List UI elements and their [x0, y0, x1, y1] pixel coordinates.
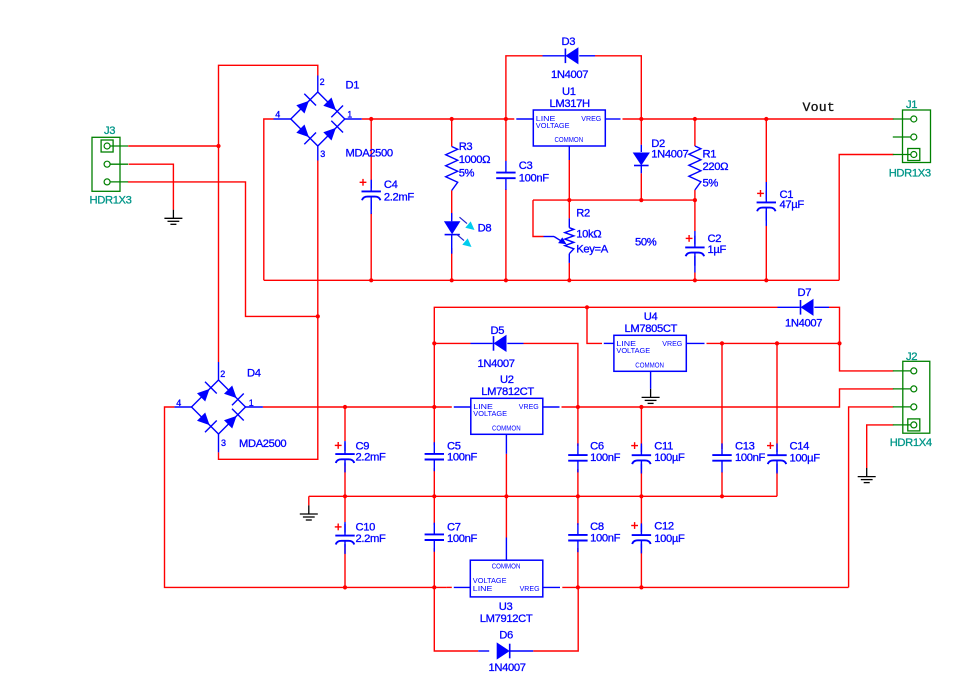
wire [505, 189, 507, 280]
voltage regulator U2 LM7812CT [471, 398, 543, 434]
junction [693, 198, 697, 202]
diode D2 [640, 145, 642, 152]
capacitor C14 [767, 445, 774, 447]
wire [640, 407, 642, 446]
capacitor C6 [577, 443, 579, 455]
wire [129, 164, 174, 210]
wire [568, 200, 570, 218]
svg-text:U3: U3 [499, 601, 513, 613]
wire [309, 495, 777, 497]
svg-text:U4: U4 [644, 311, 658, 323]
svg-text:2.2mF: 2.2mF [356, 451, 386, 463]
ground [866, 468, 868, 477]
wire [434, 342, 470, 344]
svg-text:10kΩ: 10kΩ [576, 229, 601, 241]
svg-text:VOLTAGE: VOLTAGE [473, 409, 507, 418]
svg-text:100nF: 100nF [590, 452, 620, 464]
svg-text:J1: J1 [906, 99, 917, 111]
junction [450, 278, 454, 282]
svg-text:VREG: VREG [519, 402, 539, 411]
capacitor C9 [335, 444, 342, 446]
capacitor C3 [505, 161, 507, 173]
junction [576, 585, 580, 589]
svg-text:C7: C7 [447, 522, 461, 534]
wire [128, 145, 218, 147]
bridge rectifier D4 [192, 380, 246, 434]
svg-text:HDR1X3: HDR1X3 [90, 195, 132, 207]
wire [867, 425, 894, 468]
svg-text:MDA2500: MDA2500 [239, 438, 286, 450]
wire [623, 118, 894, 120]
wire [344, 466, 346, 496]
wire [370, 119, 372, 180]
wire [362, 118, 515, 120]
wire [344, 547, 346, 587]
wire [595, 56, 641, 119]
junction [639, 585, 643, 589]
svg-text:C4: C4 [384, 179, 398, 191]
junction [576, 405, 580, 409]
wire [434, 307, 777, 407]
svg-text:2: 2 [220, 369, 225, 379]
svg-text:C14: C14 [790, 441, 810, 453]
wire [640, 496, 642, 525]
svg-text:R2: R2 [576, 207, 590, 219]
svg-text:LINE: LINE [473, 584, 493, 593]
wire [264, 119, 274, 280]
diode D7 [778, 306, 800, 308]
wire [587, 307, 602, 343]
ground [650, 389, 652, 398]
junction [720, 341, 724, 345]
svg-text:C10: C10 [356, 522, 376, 534]
voltage regulator U3 LM7912CT [470, 560, 543, 597]
svg-text:2.2mF: 2.2mF [356, 533, 386, 545]
wire [433, 468, 435, 496]
svg-text:1: 1 [249, 398, 254, 408]
wire [344, 496, 346, 522]
wire [849, 407, 894, 588]
capacitor C11 [631, 445, 638, 447]
svg-text:COMMON: COMMON [554, 135, 583, 144]
voltage regulator U4 LM7805CT [614, 335, 686, 371]
diode D5 [471, 342, 493, 344]
junction [639, 198, 643, 202]
svg-text:C6: C6 [590, 441, 604, 453]
wire [345, 586, 447, 588]
wire [505, 119, 507, 161]
svg-text:2.2mF: 2.2mF [384, 192, 414, 204]
junction [639, 494, 643, 498]
wire [707, 342, 840, 344]
junction [316, 314, 320, 318]
junction [585, 305, 589, 309]
svg-text:MDA2500: MDA2500 [346, 148, 393, 160]
wire [829, 307, 840, 343]
svg-text:U2: U2 [500, 374, 514, 386]
wire [721, 472, 723, 496]
junction [343, 494, 347, 498]
wire [263, 406, 452, 408]
wire [433, 407, 435, 445]
capacitor C2 [686, 237, 693, 239]
svg-text:1000Ω: 1000Ω [459, 154, 491, 166]
junction [576, 494, 580, 498]
junction [343, 405, 347, 409]
wire [533, 587, 578, 651]
ground [308, 505, 310, 514]
junction [639, 117, 643, 121]
wire [451, 248, 453, 280]
svg-text:VREG: VREG [662, 339, 682, 348]
svg-text:1µF: 1µF [708, 244, 727, 256]
wire [577, 407, 579, 446]
capacitor C10 [335, 526, 342, 528]
wire [694, 273, 696, 281]
svg-text:47µF: 47µF [780, 199, 805, 211]
svg-text:100nF: 100nF [447, 533, 477, 545]
ground [172, 210, 174, 219]
wire [765, 119, 767, 182]
capacitor C4 [360, 181, 367, 183]
wire [694, 200, 696, 231]
wire [721, 343, 723, 449]
junction [504, 278, 508, 282]
resistor R1 [689, 146, 701, 190]
wire [434, 587, 478, 651]
junction [343, 585, 347, 589]
svg-text:C8: C8 [590, 521, 604, 533]
wire [128, 182, 318, 317]
capacitor C12 [631, 525, 638, 527]
junction [450, 117, 454, 121]
wire [219, 65, 318, 362]
svg-text:R1: R1 [703, 149, 717, 161]
bridge rectifier D1 [291, 92, 345, 146]
wire [568, 263, 570, 280]
svg-text:LM7912CT: LM7912CT [480, 613, 533, 625]
wire [640, 119, 642, 145]
svg-text:D3: D3 [562, 36, 576, 48]
wire [433, 496, 435, 525]
svg-text:2: 2 [320, 77, 325, 87]
wire [577, 469, 579, 496]
svg-text:3: 3 [320, 149, 325, 159]
wire [776, 343, 778, 449]
wire [344, 407, 346, 441]
svg-text:HDR1X3: HDR1X3 [889, 167, 931, 179]
svg-text:1N4007: 1N4007 [489, 662, 526, 673]
svg-text:COMMON: COMMON [635, 360, 664, 369]
wire [640, 469, 642, 496]
LED D8 [451, 213, 453, 221]
wire [370, 213, 372, 280]
svg-text:LM317H: LM317H [550, 98, 590, 110]
svg-text:R3: R3 [459, 141, 473, 153]
junction [764, 117, 768, 121]
svg-text:100nF: 100nF [590, 533, 620, 545]
svg-text:C12: C12 [654, 521, 674, 533]
svg-text:VREG: VREG [581, 114, 601, 123]
wire [506, 56, 543, 119]
resistor R3 [446, 147, 458, 191]
svg-text:J2: J2 [906, 351, 917, 363]
svg-text:50%: 50% [635, 237, 657, 249]
svg-text:Key=A: Key=A [576, 244, 608, 256]
svg-text:HDR1X4: HDR1X4 [890, 437, 932, 449]
capacitor C8 [577, 523, 579, 535]
wire [451, 191, 453, 220]
svg-text:4: 4 [176, 398, 181, 408]
svg-text:Vout: Vout [803, 100, 835, 115]
svg-text:COMMON: COMMON [492, 423, 521, 432]
wire [694, 190, 696, 200]
svg-text:100µF: 100µF [654, 533, 685, 545]
connector J3 [92, 137, 120, 191]
connector J2 [903, 361, 930, 433]
junction [216, 144, 220, 148]
wire [765, 226, 767, 280]
wire [524, 343, 578, 407]
svg-text:D5: D5 [491, 325, 505, 337]
svg-text:U1: U1 [562, 86, 576, 98]
svg-text:VOLTAGE: VOLTAGE [536, 121, 570, 130]
junction [369, 117, 373, 121]
wire [577, 548, 579, 587]
svg-text:100nF: 100nF [447, 451, 477, 463]
wire [533, 200, 544, 236]
junction [693, 117, 697, 121]
junction [775, 341, 779, 345]
svg-text:LM7812CT: LM7812CT [481, 386, 534, 398]
junction [837, 341, 841, 345]
wire [840, 343, 894, 371]
svg-text:100µF: 100µF [790, 453, 821, 465]
wire [447, 586, 452, 588]
capacitor C5 [433, 442, 435, 454]
svg-text:LM7805CT: LM7805CT [625, 323, 678, 335]
svg-text:J3: J3 [104, 125, 115, 137]
wire [264, 279, 839, 281]
connector J1 [903, 110, 931, 163]
wire [562, 586, 848, 588]
wire [308, 496, 310, 505]
junction [567, 278, 571, 282]
wire [219, 161, 318, 460]
voltage regulator U1 LM317H [533, 110, 605, 146]
svg-text:100nF: 100nF [735, 452, 765, 464]
svg-text:C13: C13 [735, 441, 755, 453]
wire [577, 496, 579, 525]
svg-text:1N4007: 1N4007 [785, 318, 822, 330]
capacitor C7 [433, 523, 435, 535]
svg-text:COMMON: COMMON [492, 561, 521, 570]
svg-text:5%: 5% [459, 167, 475, 179]
svg-text:100nF: 100nF [519, 173, 549, 185]
svg-text:D6: D6 [499, 629, 513, 641]
svg-text:5%: 5% [703, 177, 719, 189]
junction [369, 278, 373, 282]
capacitor C1 [757, 192, 764, 194]
svg-text:VOLTAGE: VOLTAGE [616, 346, 650, 355]
wire [165, 407, 346, 587]
wire [776, 472, 778, 496]
wire [640, 548, 642, 587]
junction [639, 405, 643, 409]
wire [694, 119, 696, 146]
junction [720, 494, 724, 498]
junction [432, 494, 436, 498]
svg-text:1N4007: 1N4007 [478, 358, 515, 370]
svg-text:D7: D7 [798, 287, 812, 299]
junction [764, 278, 768, 282]
svg-text:C2: C2 [708, 233, 722, 245]
wire [562, 389, 894, 407]
svg-text:VREG: VREG [520, 584, 540, 593]
junction [432, 405, 436, 409]
svg-text:4: 4 [275, 109, 280, 119]
svg-text:1N4007: 1N4007 [651, 149, 688, 161]
wire [839, 155, 893, 281]
diode D6 [478, 650, 489, 652]
capacitor C13 [721, 443, 723, 455]
wire [533, 199, 695, 201]
svg-text:100µF: 100µF [654, 452, 685, 464]
svg-text:C11: C11 [654, 441, 673, 453]
junction [504, 117, 508, 121]
wire [433, 548, 435, 587]
svg-text:D8: D8 [478, 222, 492, 234]
junction [432, 341, 436, 345]
svg-text:3: 3 [221, 438, 226, 448]
svg-text:D1: D1 [346, 80, 360, 92]
potentiometer R2 [568, 218, 570, 227]
wire [505, 454, 507, 538]
junction [504, 494, 508, 498]
svg-text:D4: D4 [247, 368, 261, 380]
svg-text:1N4007: 1N4007 [551, 69, 588, 81]
svg-text:220Ω: 220Ω [703, 161, 729, 173]
wire [451, 119, 453, 147]
wire [640, 173, 642, 200]
wire [568, 160, 570, 200]
svg-text:C3: C3 [519, 160, 533, 172]
junction [693, 278, 697, 282]
diode D3 [543, 55, 565, 57]
junction [567, 198, 571, 202]
junction [432, 585, 436, 589]
svg-text:1: 1 [347, 109, 352, 119]
